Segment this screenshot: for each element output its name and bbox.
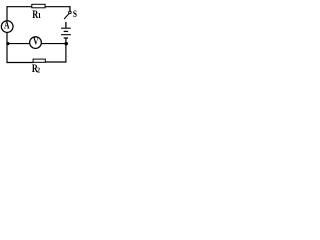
wire right vertical below battery — [65, 38, 67, 63]
svg-text:V: V — [33, 35, 39, 46]
wire left upper vertical segment — [6, 6, 8, 21]
node junction right (voltmeter tap on right wire) — [64, 42, 68, 46]
battery cell 2 short plate — [64, 37, 68, 39]
wire top segment right (from R1 to top-right corner) — [45, 6, 70, 8]
svg-text:S: S — [73, 8, 77, 19]
wire top segment left (top wire from top-left corner to R1) — [7, 6, 32, 8]
svg-text:A: A — [4, 21, 10, 33]
svg-text:2: 2 — [37, 66, 41, 73]
wire voltmeter left lead — [7, 43, 30, 45]
wire bottom segment right (corner to R2) — [45, 61, 66, 63]
wire bottom segment left (R2 to bottom-left corner) — [7, 62, 33, 64]
switch S pivot — [69, 11, 72, 14]
ammeter A — [1, 21, 13, 33]
node junction left (voltmeter tap on left wire) — [6, 42, 9, 45]
switch S blade (open) — [64, 13, 69, 19]
battery cell 1 short plate — [64, 30, 68, 32]
resistor R2 — [33, 59, 45, 62]
resistor R1 — [32, 4, 45, 8]
svg-text:1: 1 — [38, 11, 42, 20]
wire voltmeter right lead — [41, 43, 66, 45]
battery cell 2 long plate — [61, 34, 71, 36]
wire left lower vertical segment — [6, 32, 8, 63]
wire switch to battery stub — [65, 22, 67, 28]
voltmeter V — [30, 37, 42, 49]
battery cell 1 long plate — [61, 27, 71, 29]
wire right upper vertical (into switch) — [69, 6, 71, 11]
